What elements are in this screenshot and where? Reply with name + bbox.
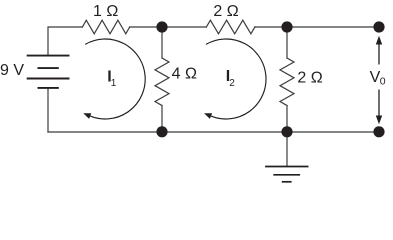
svg-text:4 Ω: 4 Ω [172,66,197,83]
resistor 2 ohm (vertical zigzag right) [280,58,294,106]
V0 down arrow [376,90,382,125]
wire top rail right segment [255,26,379,28]
wire top rail mid segment [130,26,207,28]
svg-text:2: 2 [229,78,235,89]
battery 9V plate 2 (short, -) [38,67,59,69]
wire bottom rail [48,131,379,133]
wire left branch lower (battery minus to bottom rail) [47,88,49,132]
ground bar 1 (widest) [265,166,308,168]
node dot bottom middle (ground node) [281,126,292,137]
svg-text:2 Ω: 2 Ω [213,3,238,20]
wire right-middle branch upper [286,27,288,58]
wire right-middle branch lower [286,106,288,133]
battery 9V plate 3 (long, +) [27,78,70,80]
wire top rail left segment [48,27,82,56]
wire ground stem [286,132,288,167]
battery 9V plate 4 (short, -) [38,87,59,89]
svg-text:2 Ω: 2 Ω [297,70,322,87]
wire middle branch upper [161,27,163,58]
svg-text:9 V: 9 V [0,62,24,79]
node dot top right (V0 +) [373,21,384,32]
battery 9V plate 1 (long, +) [27,55,70,57]
mesh current I1 arrow (clockwise loop) [83,39,145,119]
mesh current I2 arrow (clockwise loop) [204,39,266,119]
resistor 2 ohm (R top-middle zigzag) [206,20,255,34]
node dot bottom left (4ohm to bottom rail) [156,126,167,137]
resistor 1 ohm (R top-left zigzag) [82,20,129,34]
node dot top B (junction 2ohm/2ohm/wire) [281,21,292,32]
ground bar 3 (narrowest) [282,181,292,183]
node dot bottom right (V0 -) [373,126,384,137]
ground bar 2 [273,174,300,176]
node dot top A (junction 1ohm/2ohm/4ohm) [156,21,167,32]
svg-text:0: 0 [380,76,386,88]
svg-text:1: 1 [111,78,117,89]
resistor 4 ohm (vertical zigzag) [155,58,169,106]
wire middle branch lower [161,106,163,133]
V0 up arrow [376,36,382,65]
svg-text:1 Ω: 1 Ω [93,3,118,20]
